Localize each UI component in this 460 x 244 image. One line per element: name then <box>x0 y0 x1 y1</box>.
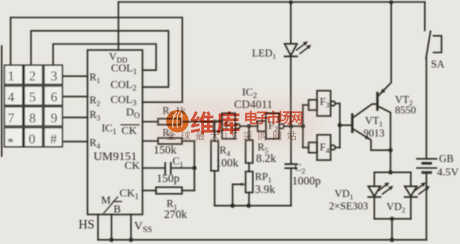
node ground rail stub3 <box>129 238 133 242</box>
gate F1 box <box>222 113 235 139</box>
node VD box top feed <box>388 170 392 174</box>
wire F4 input <box>303 147 309 149</box>
gate F3 input box <box>309 100 317 110</box>
wire D0 line left segment <box>143 121 159 123</box>
diode VD1 cathode bar <box>368 196 380 198</box>
watermark text slogan <box>166 131 296 140</box>
node top rail VT2 emitter <box>389 0 393 4</box>
node F out to VT1 base <box>338 123 342 127</box>
wire F3 F4 input vertical <box>302 105 304 148</box>
wire middle ground rail <box>215 205 291 207</box>
battery GB plates <box>417 158 437 160</box>
node F1 out R3 <box>247 124 251 128</box>
RP1 wiper arm <box>233 184 244 205</box>
wire F4 output <box>335 147 340 149</box>
keypad outer cells <box>4 65 22 84</box>
wire SA to battery <box>425 58 427 158</box>
diode VD2 arrows <box>415 185 427 194</box>
wire F3 output <box>335 103 340 105</box>
wire keypad row1 to R1 pin <box>63 75 88 77</box>
transistor VT2 base bar <box>376 93 378 110</box>
LED LED1 cathode bar <box>285 55 297 57</box>
wire RP1 bottom to middle rail <box>248 193 250 206</box>
capacitor C2 plates <box>285 164 296 168</box>
gate F1 output bubble <box>235 124 240 129</box>
wire CK1 line left segment <box>143 190 157 192</box>
wire keypad col1 to COL3 net <box>11 18 183 103</box>
transistor VT2 collector <box>378 106 391 172</box>
node ground rail stub2 <box>109 238 113 242</box>
node F2 out LED rail <box>289 124 293 128</box>
gate F3 output bubble <box>331 101 336 106</box>
wire IC1 bottom stub VSS <box>130 215 132 240</box>
wire VD box bottom <box>374 218 411 220</box>
wire VD1 branch upper <box>373 172 375 186</box>
transistor VT1 emitter <box>353 129 391 151</box>
wire R4 100k top branch <box>214 122 216 141</box>
wire to VT1 base <box>340 124 353 126</box>
gate F2 input box <box>258 121 266 131</box>
transistor VT1 base bar <box>351 115 353 132</box>
wire IC1 bottom stub HS <box>97 215 99 240</box>
switch SA bracket <box>434 36 442 53</box>
node VT1 emitter VT2 collector <box>388 148 392 152</box>
wire top VDD rail <box>118 1 424 3</box>
capacitor C1 plates <box>165 163 171 174</box>
wire CKbar line to oscillator rail <box>182 140 194 142</box>
RP1 wiper arrowhead <box>241 183 246 186</box>
wire VD box top <box>374 171 411 173</box>
wire R3 top branch <box>248 126 250 140</box>
wire C1 to oscillator rail <box>171 167 195 169</box>
gate F3 box <box>317 91 331 116</box>
wire CK line to C1 <box>143 167 166 169</box>
LED LED1 triangle <box>285 44 297 56</box>
wire battery to bottom rail <box>425 173 427 240</box>
resistor R1 270k body <box>156 187 182 194</box>
gate F1 input box <box>214 121 222 131</box>
wire oscillator right rail <box>193 141 195 191</box>
switch SA upper terminal <box>424 2 426 30</box>
wire R4 100k bottom to middle rail <box>214 171 216 206</box>
watermark text weiku <box>191 111 240 134</box>
wire F output join vertical <box>339 104 341 148</box>
gate F2 output bubble <box>279 124 284 129</box>
wire VD1 branch lower <box>373 197 375 219</box>
potentiometer RP1 body <box>246 172 253 193</box>
watermark logo circle <box>166 110 189 133</box>
wire keypad col2 to COL2 net <box>31 31 169 87</box>
LED1 anode rail from top <box>290 2 292 44</box>
IC UM9151 body <box>88 50 143 215</box>
switch SA blade <box>426 31 431 58</box>
resistor R4 100k body <box>211 141 218 171</box>
wire bottom ground rail <box>98 239 427 241</box>
wire CKbar line left segment <box>143 140 159 142</box>
wire VD2 branch lower <box>410 197 412 219</box>
diode VD2 triangle <box>405 186 417 196</box>
wire keypad row2 to R2 pin <box>63 96 88 98</box>
resistor R5 1k body <box>158 119 181 125</box>
node F3 F4 input tee <box>301 124 305 128</box>
resistor R3 8.2k body <box>246 140 253 163</box>
wire VD2 branch upper <box>410 172 412 186</box>
transistor VT2 emitter <box>378 2 392 97</box>
diode VD1 triangle <box>368 186 380 196</box>
wire IC1 bottom stub 2 <box>111 215 113 240</box>
transistor VT2 emitter arrow <box>380 89 385 94</box>
wire 270k to oscillator rail <box>182 190 194 192</box>
node ground rail VD <box>390 238 394 242</box>
keypad 3x4 <box>4 65 62 147</box>
node middle rail wiper <box>230 204 234 208</box>
wire keypad row4 to R4 pin <box>63 141 88 143</box>
wire D0 line to gate F1 input <box>181 121 223 123</box>
gate F4 box <box>317 135 331 160</box>
wire R3 to RP1 <box>248 163 250 172</box>
gate F4 input box <box>309 142 317 152</box>
wire VD box bottom to ground rail <box>391 219 393 240</box>
node VD box bottom feed <box>390 217 394 221</box>
wire keypad row3 to R3 pin <box>63 116 88 118</box>
node C1 oscillator rail <box>192 166 196 170</box>
wire VDD riser from IC1 top to top rail <box>117 2 119 50</box>
watermark text dianzishichangwang <box>245 111 302 125</box>
wire keypad col3 to COL1 net <box>53 44 156 70</box>
keypad digits <box>7 69 57 150</box>
gate F4 output bubble <box>331 145 336 150</box>
IC1 pin labels <box>79 52 153 234</box>
wire F2 output to F3 F4 inputs <box>284 125 303 127</box>
transistor VT1 collector <box>353 104 378 118</box>
resistor R2 150k body <box>158 138 182 144</box>
wire node to C2 top <box>290 126 292 164</box>
transistor VT1 emitter arrow <box>365 135 371 139</box>
wire F3 input <box>303 104 309 106</box>
diode VD2 cathode bar <box>405 196 417 198</box>
watermark haze <box>150 100 320 146</box>
wire stray left edge <box>1 46 3 156</box>
wire F1 output to F2 input <box>240 125 258 127</box>
wire LED1 cathode down to F2 output node <box>290 56 292 126</box>
node top rail LED1 <box>289 0 293 4</box>
node middle rail RP1 <box>247 204 251 208</box>
wire C2 bottom to middle rail <box>290 168 292 206</box>
diode VD1 arrows <box>379 185 391 194</box>
gate F2 box <box>266 113 279 139</box>
LED LED1 emission arrows <box>297 44 309 54</box>
node D0 R4 branch <box>213 120 217 124</box>
